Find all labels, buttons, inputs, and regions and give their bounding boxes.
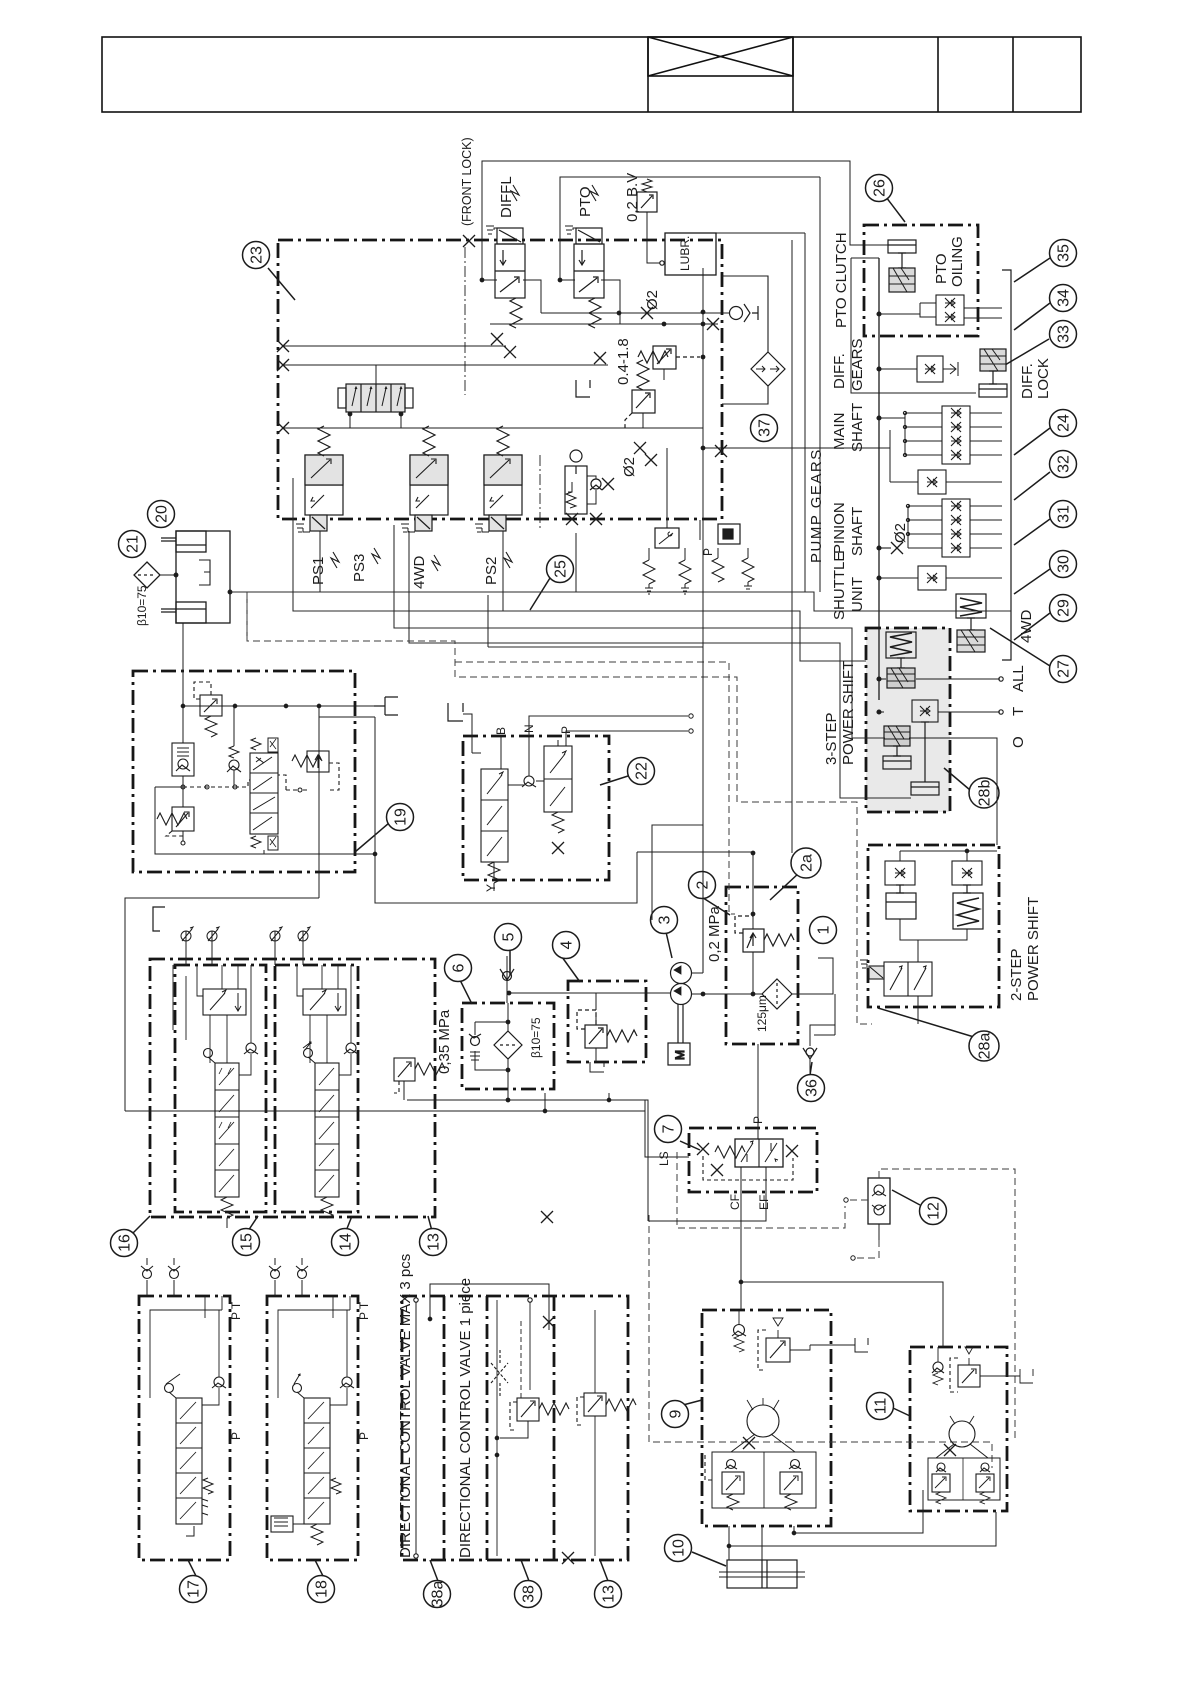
4WD spring clutch	[956, 594, 986, 652]
svg-text:28b: 28b	[977, 780, 994, 807]
loop wire PTO	[560, 177, 820, 280]
bus y324	[490, 323, 718, 325]
svg-text:PTO: PTO	[577, 186, 594, 217]
box 9 check	[734, 1325, 745, 1336]
header divider 2	[792, 37, 794, 112]
svg-text:23: 23	[249, 246, 266, 264]
svg-text:28a: 28a	[977, 1033, 994, 1060]
box 4	[568, 981, 646, 1062]
svg-text:P T: P T	[357, 1301, 371, 1320]
wire bus y346	[283, 345, 506, 347]
svg-text:13: 13	[601, 1585, 618, 1603]
pilot symbols above bank	[181, 927, 310, 954]
PS3 coil lead	[372, 548, 380, 564]
wires 38 chamber	[497, 1300, 530, 1556]
svg-text:GEARS: GEARS	[849, 338, 866, 391]
svg-text:PINION: PINION	[831, 502, 848, 554]
svg-text:24: 24	[1056, 414, 1073, 432]
relief 0,2 B.V	[637, 179, 660, 263]
svg-text:POWER SHIFT: POWER SHIFT	[840, 661, 857, 765]
svg-text:38: 38	[521, 1585, 538, 1603]
motor M box	[668, 1043, 690, 1065]
svg-text:1: 1	[816, 925, 833, 934]
svg-text:18: 18	[314, 1580, 331, 1598]
solenoid valve PTO	[565, 226, 604, 328]
check valve top right	[730, 304, 751, 322]
svg-text:34: 34	[1056, 289, 1073, 307]
spring clutch 3step	[886, 632, 916, 688]
box 23 transmission housing	[278, 240, 722, 519]
relief bottom left	[157, 807, 194, 845]
port bracket top left	[448, 703, 463, 721]
svg-text:3: 3	[657, 915, 674, 924]
PTO oiling throttle pair	[920, 295, 964, 325]
svg-text:25: 25	[553, 560, 570, 578]
EF line	[649, 1192, 766, 1221]
svg-text:B: B	[494, 727, 508, 735]
check 17	[214, 1377, 224, 1387]
coil lead DIFFL	[511, 185, 519, 201]
svg-text:PTO CLUTCH: PTO CLUTCH	[833, 232, 850, 328]
relief valve 0.4-1.8	[638, 346, 700, 380]
svg-text:12: 12	[926, 1202, 943, 1220]
svg-text:β10=75: β10=75	[529, 1017, 543, 1058]
box 19	[133, 671, 355, 872]
port bracket 1	[820, 1046, 834, 1074]
box 11 check	[933, 1362, 943, 1372]
pump 1	[671, 963, 692, 984]
wire bank supply	[488, 646, 703, 648]
dashed pilot right	[278, 775, 286, 790]
relief small right of 14	[394, 1058, 445, 1100]
wire cooler to 4wd clutch	[230, 592, 1011, 611]
4WD valve	[401, 426, 448, 532]
svg-text:P: P	[357, 1432, 371, 1440]
wire 38a	[415, 1302, 417, 1554]
main bus y706 with T port	[183, 705, 385, 707]
box 14 inner	[275, 965, 358, 1212]
svg-text:Ø2: Ø2	[621, 457, 638, 477]
dashed loop right	[879, 1169, 1015, 1440]
wire y448 to main shaft	[703, 448, 890, 482]
wire main row	[879, 417, 905, 419]
piston left 2step	[886, 885, 916, 919]
svg-text:27: 27	[1056, 660, 1073, 678]
svg-text:DIFF.: DIFF.	[1019, 363, 1036, 399]
box 11 bottom block	[928, 1458, 1000, 1504]
svg-text:38a: 38a	[430, 1581, 447, 1608]
wire bus y428	[283, 427, 703, 429]
spool 14	[303, 965, 358, 1218]
check 18	[342, 1377, 352, 1387]
svg-text:SHUTTLE: SHUTTLE	[831, 552, 848, 620]
box 38a divider	[443, 1296, 446, 1560]
svg-text:DIRECTIONAL CONTROL VALVE MAX: DIRECTIONAL CONTROL VALVE MAX 3 pcs	[397, 1254, 414, 1558]
svg-text:14: 14	[338, 1233, 355, 1251]
SHUTTLE throttle	[877, 566, 1002, 590]
throttle pair right	[952, 861, 982, 885]
wire s3	[394, 525, 885, 738]
switch box 2	[712, 524, 754, 592]
svg-text:LOCK: LOCK	[1035, 358, 1052, 399]
box 6 filter unit	[462, 1003, 554, 1089]
2step wires	[900, 919, 967, 1024]
4-section pilot valve block	[338, 365, 413, 428]
wire bank to ls	[645, 1111, 689, 1157]
svg-text:29: 29	[1056, 599, 1073, 617]
box 9 relief	[758, 1318, 868, 1370]
spool 17	[165, 1374, 214, 1536]
shuttle check 2	[227, 706, 241, 785]
big dashed loop left	[649, 1215, 992, 1468]
spool 15	[204, 965, 259, 1228]
loop wire DIFFL	[482, 161, 888, 280]
wire filter to cooler	[160, 574, 176, 576]
box 17	[139, 1296, 230, 1560]
svg-text:13: 13	[426, 1233, 443, 1251]
PS1 coil lead	[331, 552, 339, 568]
header divider 3	[937, 37, 939, 112]
wire ps1 return	[293, 478, 866, 661]
svg-text:(FRONT LOCK): (FRONT LOCK)	[460, 137, 474, 226]
reducing valve top	[194, 682, 222, 737]
svg-text:3-STEP: 3-STEP	[823, 712, 840, 765]
box 3-step power shift	[866, 628, 950, 812]
header outer frame	[102, 37, 1081, 112]
svg-text:9: 9	[668, 1409, 685, 1418]
shuttle ball 22	[522, 776, 536, 787]
svg-text:35: 35	[1056, 244, 1073, 262]
svg-text:OILING: OILING	[949, 236, 966, 287]
left valve 22	[481, 769, 508, 891]
left loop wire	[155, 787, 375, 854]
svg-text:Ø2: Ø2	[892, 523, 909, 543]
header divider 4	[1012, 37, 1014, 112]
svg-text:DIFFL: DIFFL	[498, 176, 515, 218]
PS2 coil lead	[504, 552, 512, 568]
svg-text:125μm: 125μm	[755, 995, 769, 1032]
svg-text:4WD: 4WD	[411, 556, 428, 590]
svg-text:SHAFT: SHAFT	[849, 507, 866, 556]
spring clutch right 2step	[953, 885, 983, 929]
bus y313	[541, 312, 729, 314]
orifice pinion	[891, 542, 903, 554]
main spool 6-section	[250, 738, 278, 850]
pressure switch	[643, 528, 691, 594]
wire cooler down	[230, 592, 247, 641]
check 5 on line	[506, 956, 508, 1003]
svg-text:7: 7	[661, 1124, 678, 1133]
svg-text:T: T	[1010, 707, 1027, 716]
svg-text:PTO: PTO	[933, 253, 950, 284]
crossed box	[648, 37, 793, 76]
svg-text:PS2: PS2	[483, 557, 500, 585]
oil cooler body	[176, 531, 230, 623]
box 18	[267, 1296, 358, 1560]
right collector bracket	[1002, 270, 1011, 660]
box 1 pump unit	[726, 887, 798, 1044]
shaft to motor	[678, 1004, 683, 1043]
cylinder 10	[719, 1560, 805, 1588]
detent solenoid 18	[271, 1511, 304, 1532]
LUBR port circle	[660, 261, 664, 265]
4WD coil lead	[432, 555, 440, 571]
P label wire	[699, 520, 701, 540]
svg-text:LUBR.: LUBR.	[678, 236, 692, 271]
valve12 dashed ports	[849, 1199, 868, 1201]
svg-text:32: 32	[1056, 455, 1073, 473]
lube valve 25	[565, 450, 614, 525]
svg-text:P: P	[229, 1432, 243, 1440]
main shaft single throttle	[890, 430, 1002, 494]
steering wheel 9	[731, 1398, 795, 1452]
svg-text:36: 36	[804, 1079, 821, 1097]
wire pto row	[879, 313, 920, 315]
dashed pilot bundle	[247, 592, 872, 1024]
svg-text:M: M	[673, 1050, 687, 1060]
long vertical line D	[819, 177, 821, 592]
svg-text:2a: 2a	[799, 854, 816, 872]
box 22	[463, 736, 609, 880]
dashed pilot box 7	[703, 1156, 793, 1180]
relief valve 2	[735, 916, 794, 996]
svg-text:2-STEP: 2-STEP	[1008, 948, 1025, 1001]
P line down to box 7	[757, 1044, 759, 1128]
header divider 1	[647, 37, 649, 112]
bank internal top wires	[173, 965, 186, 1040]
DIFF LOCK clutch	[979, 349, 1007, 397]
PTO clutch piston	[888, 240, 916, 292]
PS1 valve	[296, 426, 343, 532]
svg-text:30: 30	[1056, 555, 1073, 573]
svg-text:O: O	[1010, 736, 1027, 748]
X on top edge	[463, 235, 475, 247]
bypass loop filter 37	[722, 276, 768, 404]
relief valve 0.4	[625, 360, 655, 428]
box 38 divider	[486, 1296, 489, 1560]
pump merge	[691, 268, 703, 973]
main lube bus vertical	[878, 258, 880, 700]
suction line	[509, 992, 671, 994]
svg-text:26: 26	[872, 179, 889, 197]
check 36	[803, 1048, 817, 1059]
long vertical line C	[804, 233, 806, 592]
CF line down	[740, 1192, 742, 1310]
svg-text:UNIT: UNIT	[849, 577, 866, 612]
supply line in	[182, 623, 184, 743]
relief feed line	[637, 852, 753, 929]
steering wheel 11	[936, 1416, 988, 1458]
leader lines	[268, 268, 295, 300]
svg-text:33: 33	[1056, 325, 1073, 343]
drain to check 36	[810, 994, 835, 1046]
orifice mark O2 top	[641, 307, 653, 319]
relief right	[286, 751, 339, 792]
wire s4	[409, 531, 911, 798]
pilots above 17	[146, 1258, 148, 1296]
box 9 steering unit	[702, 1310, 831, 1526]
filter 125um	[762, 979, 792, 1009]
wire s5	[487, 595, 489, 647]
3step out lines	[916, 679, 1000, 712]
solenoid valve DIFFL	[486, 226, 525, 328]
box 6 filter	[469, 1003, 522, 1102]
box 13 divider	[553, 1296, 556, 1560]
svg-text:Y: Y	[484, 884, 498, 892]
svg-text:ALL: ALL	[1010, 665, 1027, 692]
svg-text:DIFF.: DIFF.	[831, 353, 848, 389]
PS2 valve	[475, 426, 522, 532]
long wires bottom	[407, 1100, 648, 1221]
svg-text:SHAFT: SHAFT	[849, 403, 866, 452]
svg-text:15: 15	[239, 1233, 256, 1251]
svg-text:DIRECTIONAL CONTROL VALVE 1 pi: DIRECTIONAL CONTROL VALVE 1 piece	[457, 1278, 474, 1558]
svg-text:0,2 B.V: 0,2 B.V	[624, 173, 641, 222]
spool 18	[293, 1374, 342, 1545]
box 11 steering unit 2	[910, 1347, 1007, 1511]
wire pump to box4	[554, 992, 596, 994]
wires 22	[494, 736, 566, 880]
throttle pair left	[885, 861, 915, 885]
centerline front lock	[464, 247, 466, 395]
wires below 9	[729, 1526, 762, 1560]
svg-text:17: 17	[186, 1580, 203, 1598]
box 7 priority valve	[689, 1128, 817, 1192]
MAIN SHAFT 4-valve block	[903, 406, 1002, 464]
wire under box 22	[375, 717, 637, 903]
wires 17	[150, 1296, 222, 1398]
svg-text:PS3: PS3	[351, 554, 368, 582]
dashed line from cooler branch	[247, 592, 872, 1024]
long vertical line B	[791, 240, 793, 853]
box 9 bottom block	[705, 1452, 816, 1510]
box 4 relief	[577, 993, 637, 1072]
wire PTO out	[601, 280, 620, 324]
svg-text:31: 31	[1056, 505, 1073, 523]
wire to 22 ports	[529, 716, 688, 736]
throttle mid 3step	[912, 700, 938, 722]
2step valve	[860, 960, 932, 996]
svg-text:37: 37	[757, 419, 774, 437]
right valve 22	[544, 746, 572, 854]
port bracket symbol	[576, 380, 590, 397]
svg-text:16: 16	[117, 1234, 134, 1252]
svg-text:EF: EF	[757, 1195, 771, 1210]
wires 18	[278, 1296, 350, 1398]
box 26 PTO clutch	[864, 225, 978, 336]
svg-text:PS1: PS1	[310, 557, 327, 585]
svg-text:POWER SHIFT: POWER SHIFT	[1025, 897, 1042, 1001]
svg-text:4WD: 4WD	[1018, 610, 1035, 644]
dashed throttle 38	[491, 1363, 508, 1383]
svg-text:MAIN: MAIN	[831, 413, 848, 451]
pilots above 18	[274, 1258, 276, 1296]
svg-text:5: 5	[501, 932, 518, 941]
wire ps1 drop	[319, 531, 321, 592]
LS dashed loop	[677, 1152, 845, 1228]
dashed pilot row y787	[183, 786, 236, 788]
svg-text:CF: CF	[728, 1194, 742, 1210]
dashed pilot to relief 2	[455, 662, 735, 914]
svg-text:19: 19	[393, 808, 410, 826]
box 15 inner	[175, 965, 266, 1212]
filter 21 diamond	[134, 562, 160, 588]
svg-text:11: 11	[873, 1398, 890, 1415]
svg-text:0.4-1.8: 0.4-1.8	[615, 338, 632, 385]
coil lead PTO	[590, 185, 598, 201]
svg-text:6: 6	[451, 963, 468, 972]
wire valve25 drop	[575, 533, 577, 592]
svg-text:22: 22	[634, 762, 651, 780]
svg-text:0,35 MPa: 0,35 MPa	[436, 1009, 453, 1074]
relief 13 chamber	[577, 1310, 636, 1556]
relief 38	[495, 1398, 569, 1457]
out to port 1	[792, 958, 833, 994]
thin enclosure line	[851, 258, 976, 393]
orifice O2 mid	[634, 442, 646, 454]
wire DIFFL out	[523, 280, 541, 313]
piston bottom 3step	[911, 722, 939, 795]
compensator 15	[197, 965, 246, 1015]
LUBR box	[665, 233, 716, 275]
box 38a/38/13 bank	[402, 1296, 628, 1560]
svg-text:0,2 MPa: 0,2 MPa	[706, 905, 723, 962]
wire diff row	[879, 368, 917, 370]
inner risers	[319, 706, 375, 717]
svg-text:4: 4	[559, 940, 576, 949]
wire bus y365	[283, 364, 608, 366]
valve body 7	[735, 1139, 783, 1167]
svg-text:β10=75: β10=75	[135, 585, 149, 626]
check valve w spring	[172, 743, 194, 807]
box 16/13 outer valve bank	[150, 959, 435, 1217]
box 2-step power shift	[868, 845, 999, 1007]
svg-text:PUMP GEARS: PUMP GEARS	[808, 448, 825, 563]
svg-text:LS: LS	[657, 1151, 671, 1166]
compensator 14	[297, 965, 346, 1015]
pump 2	[671, 984, 692, 1005]
filter/cooler diamond 37	[751, 352, 785, 386]
X on bank bottom edge	[541, 1211, 553, 1223]
box 11 relief	[950, 1347, 1033, 1392]
svg-text:P T: P T	[229, 1301, 243, 1320]
svg-text:20: 20	[154, 505, 171, 523]
wire LUBR top to right	[716, 232, 805, 234]
centerline ps2	[539, 455, 541, 530]
pump riser	[652, 825, 703, 973]
wire ps2 drop	[502, 531, 504, 611]
svg-text:21: 21	[125, 535, 142, 553]
clutch 2 3step	[883, 726, 911, 769]
PINION 4-valve block	[906, 499, 1002, 557]
DIFF GEARS throttle	[917, 356, 958, 382]
svg-text:10: 10	[671, 1539, 688, 1557]
